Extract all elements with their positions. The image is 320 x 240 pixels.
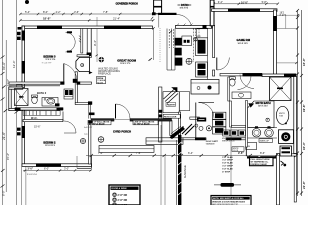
bottom dim string y155 [86, 154, 296, 156]
cabinet dark rect 3 [175, 58, 183, 66]
shutter marks left wall win1 [17, 32, 21, 35]
wall patio right below x294.2 [294, 156, 296, 202]
wall master hall x229.5 lower [230, 101, 232, 127]
angled garage wall [171, 127, 184, 137]
powder sink [238, 93, 243, 97]
svg-text:3'-6": 3'-6" [74, 10, 79, 14]
svg-text:MAKE-UP: MAKE-UP [260, 140, 270, 143]
ext line x165 [164, 155, 166, 205]
window left 2 [22, 61, 25, 74]
svg-text:21'-6": 21'-6" [2, 132, 6, 140]
vanity master counter [248, 127, 278, 129]
jamb kitchen wall [203, 25, 207, 28]
svg-text:EGRESS QUALIF.: EGRESS QUALIF. [251, 163, 268, 166]
jamb marks hall [60, 82, 64, 85]
wall connect bath corner [292, 154, 297, 156]
svg-text:5'-4": 5'-4" [25, 10, 30, 14]
window top-right [228, 8, 260, 11]
bordered label above wall [163, 114, 180, 118]
tick bay bottom [4, 109, 8, 112]
wall game room right x273.5 [274, 10, 277, 75]
tick on x97 [95, 55, 98, 57]
sink dark bits [184, 40, 187, 43]
svg-text:6'-4": 6'-4" [188, 151, 193, 155]
wall bed3 south y82 [9, 82, 64, 84]
svg-text:9'-4": 9'-4" [93, 40, 97, 46]
double oven box [196, 62, 208, 77]
window top-left 2 [104, 26, 141, 29]
small symbol below step [281, 161, 284, 165]
bed3 door leaf [63, 64, 65, 83]
master sink 2 [265, 128, 274, 137]
svg-text:GAME RM: GAME RM [237, 38, 251, 42]
dimension extension line left x2.5 [2, 0, 4, 205]
ext line game south [277, 62, 298, 64]
svg-text:3'-4": 3'-4" [218, 0, 223, 4]
bedrm3 closet wall x81 [81, 29, 83, 54]
faucet marks sinks [255, 126, 258, 128]
svg-text:7'-8": 7'-8" [103, 10, 108, 14]
bordered note box right mid [250, 158, 274, 166]
svg-text:BATH 2: BATH 2 [37, 91, 47, 95]
svg-text:12'-4": 12'-4" [12, 60, 16, 68]
svg-text:11'0 X 11'0: 11'0 X 11'0 [45, 145, 56, 147]
island inner line [191, 82, 219, 84]
patio wall tie bar [154, 6, 162, 8]
ext line game bottom [277, 28, 298, 30]
dim tick at wall end [151, 17, 153, 20]
thin line down to note [230, 128, 232, 196]
svg-text:DOOR & WDW: DOOR & WDW [112, 188, 128, 190]
trane box right [280, 146, 292, 156]
shower center dash [277, 88, 283, 90]
shower bath2 dash [19, 96, 24, 97]
dimension tick left y99 [1, 98, 5, 101]
porch front wall right segment [130, 119, 172, 122]
svg-text:19'0 X 17'0: 19'0 X 17'0 [120, 63, 131, 65]
dark arrow at platform angle [248, 103, 254, 107]
wall master top y74 [262, 74, 296, 77]
svg-text:5'-8": 5'-8" [262, 0, 267, 4]
garage section marker blob [221, 183, 235, 187]
ceiling fan symbol great room [99, 57, 104, 62]
oven dark top [198, 64, 206, 69]
porch front wall y118.5 [91, 119, 114, 122]
svg-text:GARAGE: GARAGE [206, 143, 216, 146]
utility south wall y137.8 left [181, 138, 206, 140]
game room west wall x212.5 lower [213, 70, 215, 76]
svg-text:NOTE: SEE SHEET A-2 FOR ALL: NOTE: SEE SHEET A-2 FOR ALL [213, 197, 245, 200]
bedrm3 closet door arc 2 [66, 42, 76, 52]
patio door frame line [158, 15, 160, 28]
door leaf great/game [216, 58, 218, 71]
svg-text:AND SPECIFICATIONS TYP.: AND SPECIFICATIONS TYP. [212, 203, 238, 205]
island small circle [197, 87, 200, 90]
powder vanity [232, 92, 251, 99]
stairs diagonal wedge [164, 89, 179, 104]
svg-text:4'-2": 4'-2" [56, 10, 61, 14]
utility west wall x179 [179, 112, 181, 135]
game room west wall x212.5 upper [213, 26, 215, 58]
wall left exterior x22 [22, 26, 25, 88]
vert ext x285.8 [285, 15, 287, 28]
svg-text:MSTR BATH: MSTR BATH [256, 101, 271, 105]
closet label box left [232, 147, 244, 152]
utility sw wall bit [190, 117, 200, 119]
svg-text:8'-0": 8'-0" [2, 190, 6, 196]
master sink 1 [252, 128, 261, 137]
bordered note great room [97, 77, 106, 84]
wall patio left vertical x153.3 [154, 0, 162, 14]
stair enclosure box [163, 92, 179, 113]
door arc great/game [217, 58, 230, 71]
tick on it [297, 14, 299, 16]
entry door leaf [115, 104, 117, 119]
svg-text:TUB: TUB [279, 115, 284, 117]
svg-text:COVERED PORCH: COVERED PORCH [116, 3, 138, 6]
master door arc [240, 75, 254, 89]
svg-text:13'-0": 13'-0" [302, 58, 306, 66]
svg-text:CVRD PORCH: CVRD PORCH [113, 129, 131, 133]
garage wall white notches [178, 142, 181, 195]
svg-text:21'-0": 21'-0" [302, 181, 306, 189]
svg-text:3'-0" DROP: 3'-0" DROP [222, 166, 233, 168]
svg-text:15'-6": 15'-6" [6, 153, 10, 160]
svg-text:3'-0" DROP: 3'-0" DROP [222, 160, 233, 162]
small circle fixture [195, 124, 198, 127]
dim line below bed2 y170.5 [23, 170, 92, 172]
svg-text:BEDRM 2: BEDRM 2 [43, 141, 56, 145]
kitchen cabinet band lines [167, 29, 175, 71]
third appliance box [213, 127, 226, 134]
patio door leaf [158, 13, 177, 15]
wall below fireplace x75.2 [75, 72, 77, 105]
svg-text:TYP.: TYP. [84, 134, 88, 136]
toilet powder [229, 77, 235, 86]
stair dark cap [171, 87, 177, 92]
svg-text:3'-0" DR: 3'-0" DR [118, 204, 128, 205]
bath bay left wall x8.8 [9, 87, 11, 111]
closet jamb bottom [67, 51, 72, 53]
window master top [284, 74, 296, 77]
bordered label on wall 2 [133, 120, 158, 124]
cabinet band right of stairs [179, 92, 189, 111]
patio right wall tie [210, 6, 214, 8]
svg-text:PANTRY: PANTRY [167, 103, 176, 106]
svg-text:8'-6": 8'-6" [260, 151, 265, 155]
window top-left 1 [37, 26, 62, 29]
svg-text:19'-8": 19'-8" [302, 104, 306, 112]
corner jamb closet south [87, 53, 92, 57]
bordered label on wall 1 [88, 120, 111, 124]
window game right [273, 16, 277, 31]
svg-text:W/ TRIPLE BEAM: W/ TRIPLE BEAM [134, 123, 150, 126]
svg-text:5'-8" SLAB: 5'-8" SLAB [222, 167, 233, 170]
svg-text:16'0 X 13'0: 16'0 X 13'0 [238, 43, 249, 45]
wall top-left exterior y26 [22, 26, 153, 29]
utility door arc [199, 103, 215, 119]
porch slab steps left [99, 146, 154, 153]
shower game X box [270, 77, 292, 101]
right edge ticks [296, 9, 303, 195]
counter edge right of fridge [206, 56, 208, 80]
vanity bath2 counter [42, 98, 58, 107]
bed2 door arc [64, 121, 76, 133]
powder door arc [238, 76, 252, 90]
great room ceiling dashes [90, 29, 92, 50]
svg-text:2'-8" DR: 2'-8" DR [118, 194, 128, 197]
window left 3 [22, 126, 25, 138]
svg-text:7'-0": 7'-0" [98, 151, 103, 155]
svg-text:11'0 X 11'6: 11'0 X 11'6 [45, 59, 56, 61]
fireplace corner box [76, 57, 90, 71]
right edge dim line x301.5 [301, 10, 303, 196]
threshold line door [114, 119, 130, 121]
dark diag fill angled [170, 127, 186, 139]
svg-text:2'-8" DR: 2'-8" DR [118, 199, 128, 202]
dim ticks top string upper [19, 13, 154, 15]
dryer box [213, 120, 226, 127]
svg-text:10'-0": 10'-0" [241, 0, 249, 4]
washer box [213, 112, 226, 119]
platform small circle [266, 118, 269, 121]
laundry sink dark [197, 118, 206, 122]
wic hatch dashes [26, 111, 56, 116]
tick bay top [2, 85, 6, 88]
right tiny text stack 2 [222, 156, 233, 174]
wall left exterior lower [22, 109, 25, 167]
wall powder west x228 [228, 77, 230, 101]
svg-text:3'-0": 3'-0" [64, 167, 69, 171]
wall wic/bed2 y119.5 [23, 120, 63, 122]
wall garage right x276.5 [277, 154, 280, 206]
fridge box [196, 38, 208, 56]
closet south wall [77, 55, 89, 57]
ticks dim bed2 [24, 169, 92, 171]
wall top-right horizontal y8.8 [212, 9, 278, 12]
tick kitchen band [169, 30, 172, 33]
tub platform outline [248, 101, 275, 128]
pantry dashes [169, 29, 173, 48]
bedrm3 closet door arc 1 [66, 32, 76, 42]
arrow dark fireplace corner [89, 71, 93, 74]
ext line game top y15.2 [277, 14, 300, 16]
jamb hall south [89, 113, 95, 116]
wall hall y73.5 master [220, 74, 262, 76]
svg-text:5'-8" SLAB: 5'-8" SLAB [222, 162, 233, 165]
utility south wall dark jamb right [226, 137, 241, 140]
wall bath south y126.5 left stub [232, 125, 246, 127]
tick on left dim at y170 [1, 169, 5, 172]
top-right dimension line y3.8 [214, 3, 278, 5]
svg-text:54'-0": 54'-0" [2, 62, 6, 70]
svg-text:7'-6": 7'-6" [136, 151, 141, 155]
svg-text:12'0 X 10'2: 12'0 X 10'2 [258, 106, 268, 108]
label box small master [259, 139, 273, 143]
jamb hall south east [88, 101, 92, 104]
dimension extension line left x16.5 [16, 0, 18, 205]
tub ellipse [276, 106, 288, 124]
faucet circle [44, 98, 46, 100]
bath bay top wall [9, 87, 23, 89]
svg-text:8'-0": 8'-0" [43, 10, 48, 14]
ticks bottom dim [90, 154, 299, 157]
utility south wall dark jamb left [195, 137, 206, 140]
tub faucet dot [285, 122, 287, 124]
dotted line x160 kitchen [159, 28, 161, 62]
ext line wall face x21.5 [21, 166, 23, 205]
wall dark cap left [15, 107, 21, 110]
svg-text:18'-8": 18'-8" [43, 17, 51, 21]
kitchen small circle symbol [194, 38, 197, 41]
kitchen sink box [182, 36, 192, 46]
window bedrm2 [36, 163, 61, 166]
dim ticks on kitchen wall [177, 24, 193, 27]
wall master right x293.8 [294, 77, 297, 154]
toilet bath2 [32, 95, 38, 104]
ext line below bed2 wall [25, 166, 27, 205]
svg-text:21'-4": 21'-4" [113, 17, 120, 21]
svg-text:6'-0": 6'-0" [44, 167, 49, 171]
window left 1 [22, 31, 25, 41]
patio door jamb dark [152, 12, 156, 15]
pantry text blob [166, 102, 176, 106]
dimension tick left y57 [1, 56, 5, 59]
dimension tick left y186 [1, 185, 5, 188]
interior wall bed3/great x89.3 upper [87, 29, 91, 58]
porch column circle 2 [80, 138, 85, 143]
wall stub x169.8 porch to angle [170, 121, 172, 136]
dim ticks top-right [213, 3, 279, 5]
kitchen island [191, 80, 219, 95]
garage left wall inner line [175, 140, 177, 205]
svg-text:4x4 POST: 4x4 POST [84, 127, 93, 129]
dimension tick left y73 [1, 72, 5, 75]
wall bed2 east x88.5 [89, 121, 91, 164]
svg-text:5'-8" SLAB: 5'-8" SLAB [222, 156, 233, 159]
wall dark cap right [57, 107, 64, 110]
wall kitchen top y25.4 [176, 25, 212, 28]
svg-text:BEDRM 3: BEDRM 3 [43, 54, 56, 58]
island sink dot [208, 86, 212, 90]
porch column circle 1 [98, 137, 104, 143]
north symbol top left [25, 0, 29, 4]
jamb game west wall top [212, 25, 215, 28]
linen boxes bottom bath [246, 143, 257, 150]
shower bath2 X box [15, 89, 29, 106]
right edge dim line x297.5 [297, 10, 299, 196]
garage left wall hatched [178, 135, 181, 205]
wh circle [206, 126, 211, 131]
oven dark bottom [198, 70, 206, 75]
svg-text:PATIO DOOR: PATIO DOOR [164, 115, 177, 118]
bed3 door arc [64, 64, 77, 83]
top dimension line y14 [20, 13, 154, 15]
ext line x161 [160, 125, 162, 205]
porch slab steps right [146, 138, 183, 145]
sink bath2 [47, 98, 55, 104]
ext line x153.5 kitchen [153, 28, 155, 60]
wall hall y85.8 segment [9, 85, 60, 87]
jamb dark below fireplace [73, 79, 78, 83]
wall top-right vertical x211.5 [210, 0, 214, 26]
vanity right cabinet dark [55, 103, 60, 106]
wall bath2 south y107.8 [15, 108, 63, 110]
svg-text:PATIO: PATIO [181, 3, 189, 7]
svg-text:NICHE: NICHE [97, 82, 104, 84]
jamb porch west [88, 121, 92, 124]
utility diag hatch [182, 124, 194, 135]
tick game south [295, 62, 297, 64]
hall east wall lines [88, 105, 90, 119]
jamb above shower [17, 82, 23, 85]
door wdw schedule box [109, 185, 140, 207]
wall bed3 south right stub [77, 82, 92, 84]
kitchen dashed verticals [194, 29, 196, 63]
fridge dark fill [198, 40, 206, 54]
linen closet hall [64, 89, 73, 99]
shutter corner blob [18, 27, 22, 30]
shutter marks bed2 window [17, 128, 21, 131]
hall closet wall x63 [62, 112, 64, 122]
right tiny text stack 1 [222, 138, 236, 142]
closet dark boxes row [223, 130, 230, 136]
svg-text:5'-0 X 4'-0: 5'-0 X 4'-0 [27, 174, 38, 176]
entry door arc [116, 104, 131, 119]
wic rod band [23, 111, 60, 116]
svg-text:CLOS: CLOS [233, 150, 239, 152]
wc box [279, 130, 294, 144]
dim ext vertical x97 [96, 17, 98, 62]
svg-text:WINDOW & DOOR HEADER SIZES: WINDOW & DOOR HEADER SIZES [212, 200, 245, 203]
top dimension line 2 y20.3 [20, 19, 154, 21]
stoop outline x91.5 [91, 155, 93, 169]
closet hatch shelf [79, 36, 81, 43]
wall bath south y156.2 [247, 156, 276, 158]
svg-text:REF: REF [197, 36, 202, 38]
svg-text:FIREPLACE: FIREPLACE [98, 73, 111, 76]
jamb marks great rm east [158, 110, 162, 113]
wall bedrm2 bottom y164 [22, 164, 92, 167]
dimension tick left y112 [15, 111, 19, 114]
ticks lower string [19, 19, 154, 21]
closet jamb top [67, 31, 72, 33]
hall wall x158.6 vertical [159, 87, 162, 142]
fireplace circle [81, 64, 84, 67]
svg-text:10'-4": 10'-4" [302, 142, 306, 150]
svg-text:15'-6": 15'-6" [34, 126, 40, 129]
bottom note box wide [211, 196, 251, 206]
svg-text:SHELF & ROD: SHELF & ROD [222, 140, 235, 142]
patio door arc [177, 15, 192, 26]
upper cabinet rect above fridge [197, 29, 208, 38]
dimension extension line left x6.2 [5, 40, 7, 192]
svg-text:10'0 X 9'6: 10'0 X 9'6 [180, 8, 188, 10]
svg-text:4" STEP: 4" STEP [222, 170, 231, 173]
dishwasher dark rect [175, 38, 182, 46]
wc dark circle [281, 132, 290, 141]
bath bay bottom wall [9, 108, 23, 110]
hall south wall y102.6 [75, 103, 91, 105]
cooktop circle symbol [186, 58, 192, 64]
svg-text:3'-0": 3'-0" [28, 167, 34, 171]
utility south wall y137.8 right [226, 138, 247, 140]
masterbath west wall x245.5 [246, 101, 248, 148]
cabinet dark rect 2 [175, 48, 182, 56]
utility west wall stub [195, 103, 197, 138]
svg-text:9' CLG TYP: 9' CLG TYP [42, 63, 52, 65]
hall wall hatches [243, 73, 263, 76]
